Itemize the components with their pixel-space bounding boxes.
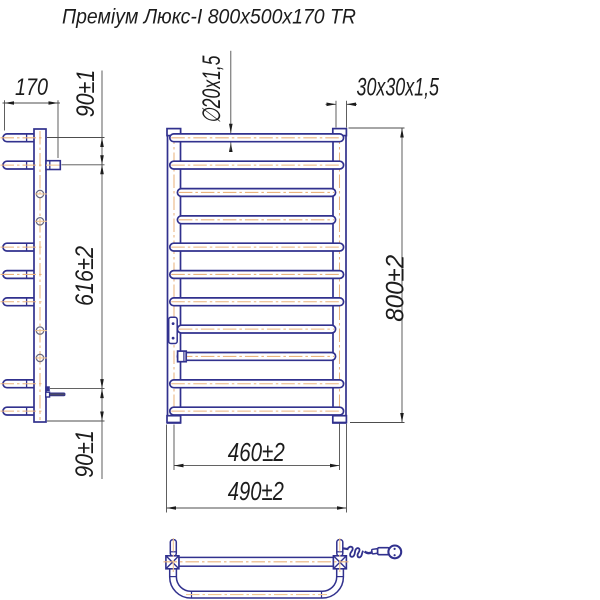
front rung 9 centerline — [179, 355, 334, 357]
front rung 11 centerline — [171, 410, 342, 412]
side view rung stub 1 — [3, 134, 38, 142]
front rung 2 centerline — [171, 164, 342, 166]
front view top-left mounting bracket — [167, 129, 181, 136]
power cord to plug — [365, 552, 373, 554]
side view narrow rung 4 weld circle — [36, 218, 43, 225]
dimension 170 extension lines — [4, 100, 6, 130]
front view bottom-right mounting bracket — [333, 416, 347, 423]
front view left riser tube — [168, 129, 181, 423]
dimension 490+2 extension lines — [166, 425, 168, 513]
front view rung 7 (wide) — [170, 298, 344, 306]
front view rung 6 (wide) — [170, 271, 344, 279]
dimension 460+2 extension lines — [173, 425, 175, 471]
side view riser bar centerline — [39, 131, 41, 420]
plug head — [388, 546, 401, 559]
front rung 4 centerline — [179, 219, 334, 221]
side view bottom bracket knob — [46, 387, 50, 391]
bottom view left stub centerline — [172, 538, 174, 572]
left chain extension line at rung1 — [47, 137, 105, 139]
dimension 800+2 text — [382, 255, 410, 322]
side stub 6 centerline — [1, 273, 45, 275]
side view rung stub 10 — [3, 380, 38, 388]
dimension 170 line — [3, 102, 61, 104]
side stub 5 centerline — [1, 246, 45, 248]
front view rung 9 (narrow) — [177, 353, 335, 361]
front view temperature regulator box — [169, 317, 178, 343]
front rung 10 centerline — [171, 383, 342, 385]
front rung 3 centerline — [179, 191, 334, 193]
dimension 30x30 arrows — [327, 103, 337, 107]
dimension 616+2 text — [71, 246, 99, 306]
dimension 170 arrows — [5, 101, 15, 105]
dimension 800+2 arrows — [400, 128, 404, 138]
side view narrow rung 3 weld circle — [36, 190, 43, 197]
dimension dia20x1,5 arrows — [229, 124, 233, 134]
side view narrow rung 8 weld circle — [36, 327, 43, 334]
dimension 800+2 extension lines — [349, 127, 405, 129]
bottom U tube bottom-left weld joint — [191, 591, 193, 598]
bottom U tube bottom-right weld joint — [321, 591, 323, 598]
dimension 490+2 line — [167, 507, 347, 509]
dimension 460+2 line — [174, 465, 340, 467]
left chain extension line at bottom bracket — [50, 388, 105, 390]
side stub 7 centerline — [1, 301, 45, 303]
dimension dia20x1,5 leader line — [230, 51, 232, 133]
front view rung 8 (narrow) — [177, 325, 335, 333]
bottom U tube left weld joint — [170, 576, 177, 578]
power cord from riser — [343, 547, 349, 550]
svg-text:490±2: 490±2 — [228, 476, 284, 506]
svg-text:90±1: 90±1 — [72, 70, 100, 118]
front view rung 10 (wide) — [170, 380, 344, 388]
front view top-right mounting bracket — [333, 129, 347, 136]
svg-text:90±1: 90±1 — [71, 430, 99, 478]
dimension 490+2 arrows — [167, 506, 177, 510]
side view rung stub 2 — [3, 161, 38, 169]
side stub 1 centerline — [1, 137, 45, 139]
side view power cord — [50, 393, 65, 396]
bottom view right stub centerline — [339, 538, 341, 572]
front view rung 3 (narrow) — [177, 189, 335, 197]
bottom U tube right weld joint — [337, 576, 344, 578]
front view right riser tube — [333, 129, 346, 423]
dimension 90+1 top text — [72, 70, 100, 118]
dimension 30x30 extension lines — [335, 101, 337, 128]
front rung 8 centerline — [179, 328, 334, 330]
dimension 90+1 bottom arrows — [100, 389, 104, 399]
bottom view left mounting box — [166, 556, 179, 569]
side view rung stub 6 — [3, 271, 38, 279]
dimension 460+2 arrows — [174, 464, 184, 468]
side stub 11 centerline — [1, 410, 45, 412]
side stub 2 centerline — [1, 164, 45, 166]
svg-text:800±2: 800±2 — [382, 255, 410, 322]
svg-text:30х30х1,5: 30х30х1,5 — [357, 74, 440, 102]
side view cable gland knob — [46, 392, 50, 397]
svg-text:460±2: 460±2 — [228, 437, 285, 467]
bottom view right mounting box — [333, 556, 346, 569]
front rung 5 centerline — [171, 246, 342, 248]
svg-text:Преміум Люкс-І 800х500х170 TR: Преміум Люкс-І 800х500х170 TR — [62, 6, 356, 29]
front view rung 4 (narrow) — [177, 216, 335, 224]
plug body — [378, 548, 390, 555]
left dimension chain line — [101, 71, 103, 480]
front rung 6 centerline — [171, 273, 342, 275]
left chain extension line at bar bottom — [47, 420, 105, 422]
svg-text:170: 170 — [15, 74, 49, 101]
dimension dia20x1,5 text — [198, 55, 226, 123]
front view heating element collar on rung 9 — [178, 351, 187, 362]
bottom view wall-side tube — [179, 557, 334, 566]
side stub 10 centerline — [1, 383, 45, 385]
side view riser bar — [34, 129, 46, 422]
bottom view bowed U tube — [170, 569, 344, 598]
side view narrow rung 9 weld circle — [36, 354, 43, 361]
side view rung stub 7 — [3, 298, 38, 306]
side view top wall bracket — [46, 161, 60, 170]
front rung 1 centerline — [171, 137, 342, 139]
front view rung 5 (wide) — [170, 243, 344, 251]
front view bottom-left mounting bracket — [167, 416, 181, 423]
left chain extension line at top bracket — [62, 164, 105, 166]
bottom view right riser stub — [337, 540, 343, 556]
front rung 7 centerline — [171, 301, 342, 303]
front view rung 11 (wide) — [170, 407, 344, 415]
svg-text:∅20х1,5: ∅20х1,5 — [198, 55, 226, 123]
front view rung 1 (wide) — [170, 134, 344, 142]
power cord coil — [348, 547, 364, 558]
side view rung stub 11 — [3, 407, 38, 415]
dimension 616+2 arrows — [100, 165, 104, 175]
side view rung stub 5 — [3, 243, 38, 251]
dimension 90+1 top arrows — [100, 138, 104, 148]
front view rung 2 (wide) — [170, 161, 344, 169]
front left tube centerline — [173, 131, 175, 422]
bottom view left riser stub — [170, 540, 176, 556]
front right tube centerline — [339, 131, 341, 422]
bottom view U tube centerline — [186, 594, 327, 596]
dimension 800+2 line — [401, 128, 403, 423]
dimension 90+1 bottom text — [71, 430, 99, 478]
svg-text:616±2: 616±2 — [71, 246, 99, 306]
bottom view wall tube centerline — [164, 561, 349, 563]
dimension 30x30 line — [326, 103, 337, 105]
plug collar — [372, 549, 379, 554]
